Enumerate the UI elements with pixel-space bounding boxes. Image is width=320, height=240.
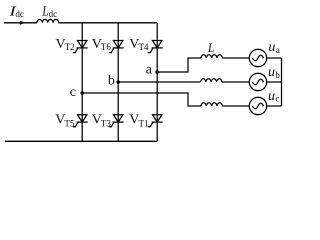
svg-text:c: c: [70, 85, 76, 100]
thyristor VT6: [109, 41, 124, 53]
wire source uc to neutral bus: [267, 105, 282, 107]
thyristor VT5: [73, 115, 88, 127]
wire top DC bus left segment: [4, 22, 37, 24]
thyristor VT1: [148, 115, 163, 127]
thyristor VT2: [73, 41, 88, 53]
wire phase b to source: [222, 81, 249, 83]
svg-text:a: a: [276, 45, 280, 55]
node a: [155, 70, 159, 74]
wire bottom DC rail: [5, 140, 157, 142]
node c: [80, 91, 84, 95]
svg-text:L: L: [207, 40, 214, 55]
wire bridge leg 2: [117, 23, 119, 142]
wire bridge leg 3: [156, 23, 158, 142]
AC source uc: [249, 97, 266, 114]
AC source ub: [249, 73, 266, 90]
thyristor VT3: [109, 115, 124, 127]
wire source ua to neutral bus: [267, 57, 282, 59]
wire bridge leg 1: [81, 23, 83, 142]
wire phase b output: [118, 81, 200, 83]
thyristor VT4: [148, 41, 163, 53]
wire top DC bus right segment: [59, 22, 157, 24]
current direction arrow I_dc: [20, 21, 25, 25]
svg-text:T1: T1: [139, 118, 149, 128]
inductor L phase a: [201, 55, 222, 58]
svg-text:T4: T4: [139, 42, 149, 52]
svg-text:c: c: [275, 93, 279, 103]
AC source ua: [249, 49, 266, 66]
svg-text:u: u: [268, 89, 275, 104]
inductor L_dc: [37, 19, 59, 22]
svg-text:T5: T5: [64, 118, 74, 128]
svg-text:T2: T2: [65, 42, 75, 52]
svg-text:a: a: [146, 63, 153, 78]
wire phase a to source: [222, 57, 249, 59]
wire phase c output: [82, 93, 201, 106]
node b: [116, 80, 120, 84]
svg-text:T6: T6: [101, 42, 111, 52]
svg-text:T3: T3: [101, 118, 111, 128]
svg-text:u: u: [268, 40, 275, 55]
wire neutral bus: [281, 58, 283, 106]
inductor L phase c: [201, 103, 222, 106]
wire phase c to source: [222, 105, 249, 107]
wire source ub to neutral bus: [267, 81, 282, 83]
svg-text:b: b: [108, 73, 115, 88]
inductor L phase b: [201, 79, 222, 82]
svg-text:b: b: [275, 70, 280, 80]
svg-text:dc: dc: [15, 9, 24, 19]
wire phase a output: [157, 58, 201, 72]
svg-text:dc: dc: [49, 9, 58, 19]
svg-text:u: u: [268, 65, 275, 80]
